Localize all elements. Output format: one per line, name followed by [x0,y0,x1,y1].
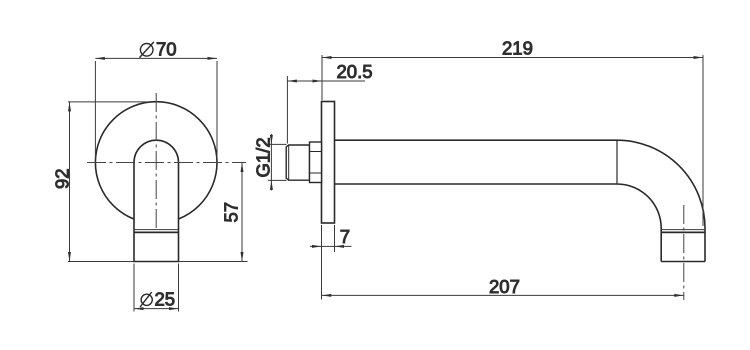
svg-text:70: 70 [156,39,177,60]
dimension ø25 extension line right [178,264,180,312]
dimension ø25 extension line left [133,264,135,312]
dimension 7 extension line right [334,225,336,252]
dimension ø70 extension line right [216,61,218,158]
dimension ø25 label [140,289,175,310]
dimension 20.5 arrow right [313,80,323,83]
dimension 207 line [322,294,684,296]
dimension 57 arrow top [241,163,244,173]
dimension ø70 extension line left [94,61,96,158]
wall plate (side view, 7mm thick flange) [322,102,335,224]
groove line thin (front view spout end) [134,229,179,231]
groove line thick (front view spout end) [134,231,179,233]
spout bend outer arc [617,140,705,261]
spout tube side view top edge [335,139,618,141]
svg-text:7: 7 [340,226,350,247]
svg-text:92: 92 [51,168,72,189]
svg-text:G1/2: G1/2 [252,137,273,177]
vertical centerline (front view) [155,93,157,230]
dimension ø70 arrow right [208,57,218,60]
svg-text:57: 57 [221,202,242,223]
svg-text:207: 207 [489,276,520,297]
hex nut (side view) [310,142,322,183]
spout tube front view (vertical tube with semicircular top) [134,140,179,261]
svg-text:20.5: 20.5 [337,61,373,82]
dimension 219 line [322,57,703,59]
outlet groove line thick [661,231,705,233]
dimension 92 arrow bottom [68,252,71,262]
dimension 92 line [69,102,71,262]
dimension 207 arrow left [322,294,332,297]
flange circle (front view, ø70 wall flange) [95,102,217,224]
dimension 57 extension line bottom [179,261,248,263]
dimension 219 arrow right [694,56,704,59]
spout bend inner arc [617,184,661,262]
dimension ø25 line [134,308,179,310]
horizontal centerline (front view) [87,162,246,164]
dimension G1/2 extension line bottom [268,179,287,181]
dimension 219 extension line right [702,55,704,226]
threaded nipple G1/2 (side view) [286,145,309,180]
svg-text:25: 25 [155,289,176,310]
dimension ø70 line [95,57,217,59]
dimension 92 extension line top [68,101,150,103]
spout outlet bottom edge [661,261,705,263]
svg-text:219: 219 [502,38,533,59]
dimension ø70 label [140,39,177,60]
dimension 7 extension line left [321,225,323,300]
dimension 20.5 extension line left [286,76,288,144]
dimension ø70 arrow left [95,57,105,60]
bend tangent line (weld seam at start of bend) [616,140,618,184]
dimension G1/2 extension line top [268,143,287,145]
spout tube side view bottom edge [335,183,618,185]
dimension 92 extension line bottom [68,261,134,263]
dimension 219 arrow left [322,56,332,59]
dimension 92 arrow top [68,102,71,112]
dimension 20.5 line [287,80,365,82]
dimension G1/2 line [270,134,272,191]
dimension 219 extension line left [321,55,323,100]
dimension ø25 arrow right [169,307,179,310]
outlet centerline [683,205,685,300]
dimension 207 arrow right [674,294,684,297]
dimension G1/2 arrow top [270,135,273,145]
dimension 20.5 arrow left [287,80,297,83]
dimension G1/2 arrow bottom [270,180,273,190]
dimension ø25 arrow left [134,307,144,310]
outlet groove line thin [661,229,705,231]
dimension 57 line [241,163,243,262]
dimension 7 arrow right [335,245,345,248]
dimension 7 arrow left [312,245,322,248]
dimension 57 arrow bottom [241,252,244,262]
dimension 7 line [310,245,352,247]
